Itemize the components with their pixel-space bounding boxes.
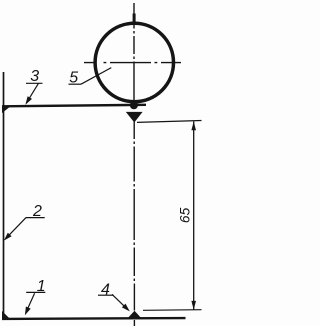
horizontal center line of circle <box>84 62 181 64</box>
dimension arrow up <box>191 121 196 130</box>
cylinder (roller) item 5 circle <box>95 23 173 101</box>
top support triangle (load point) <box>126 112 143 123</box>
label 4 shelf <box>98 294 114 296</box>
weld fillet top-left corner <box>2 106 11 113</box>
label 3 leader <box>26 83 38 103</box>
bottom support triangle (item 4) <box>128 311 142 319</box>
label 5 leader <box>81 68 111 85</box>
label 4 arrowhead <box>122 304 130 312</box>
label 4 leader <box>112 294 127 309</box>
extension line bottom <box>143 309 202 312</box>
weld fillet bottom-left corner <box>2 311 11 319</box>
label 1 shelf <box>26 291 45 293</box>
label 2 shelf <box>26 217 45 219</box>
label 3 arrowhead <box>25 96 32 105</box>
left vertical plate (item 2) <box>3 72 5 319</box>
label 3 shelf <box>26 82 43 84</box>
label 1 leader <box>26 293 35 313</box>
svg-text:65: 65 <box>178 207 193 223</box>
label 5 shelf <box>69 83 82 85</box>
label 2 leader <box>6 218 27 239</box>
svg-text:3: 3 <box>30 68 39 85</box>
dimension arrow down <box>191 301 196 310</box>
dimension line 65 <box>193 122 195 310</box>
center line below bottom plate <box>133 320 135 326</box>
bottom plate (item 1) <box>2 317 186 320</box>
extension line top (from load point) <box>137 121 202 123</box>
contact dot between roller and top plate <box>130 101 138 109</box>
top plate (item 3) <box>2 105 146 107</box>
label 2 arrowhead <box>4 233 12 241</box>
label 1 arrowhead <box>25 307 31 316</box>
vertical center line (axis) <box>133 3 135 326</box>
